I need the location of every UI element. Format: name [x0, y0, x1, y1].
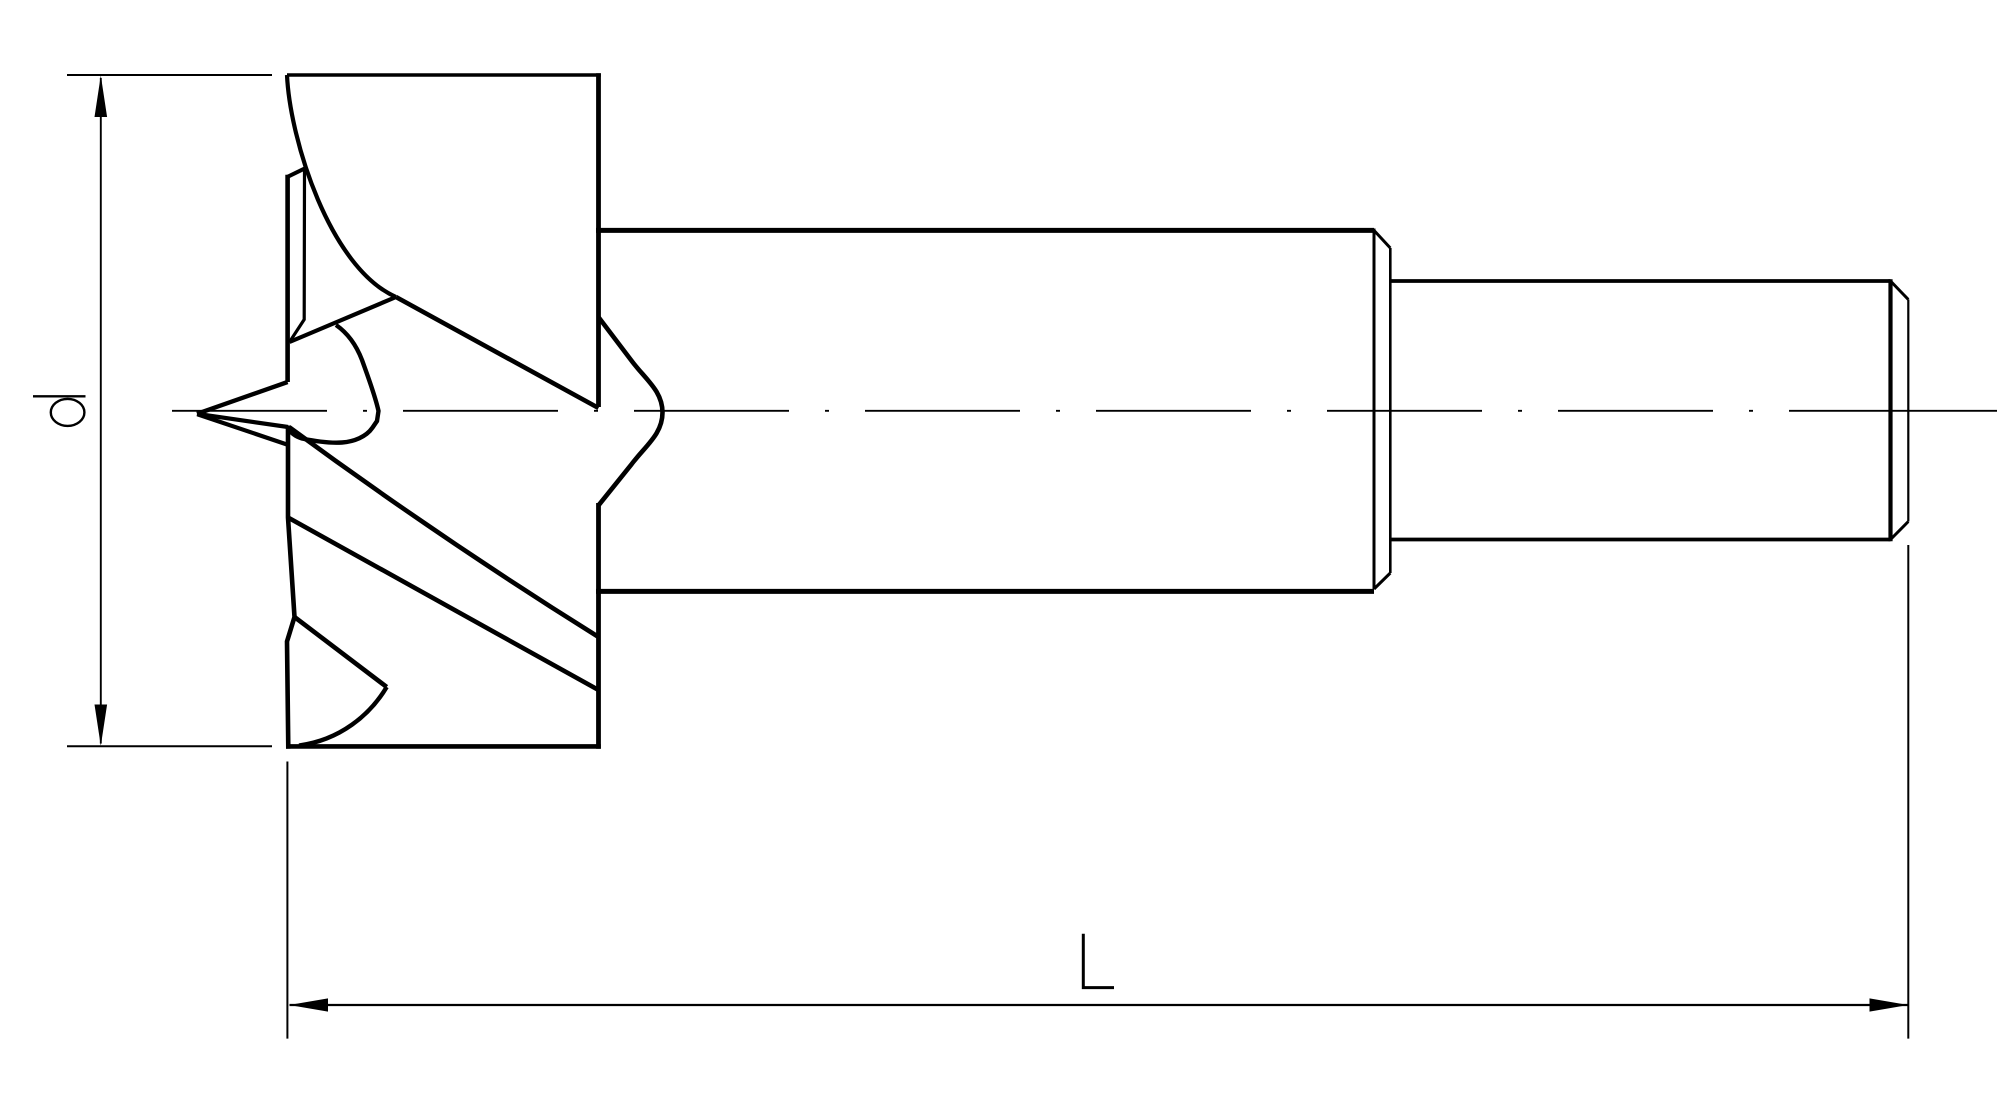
centerline (dash-dot axis) [172, 410, 1756, 412]
center spike lower edge 2 [197, 414, 288, 445]
center spike top edge [197, 382, 288, 414]
flute spiral diagonal A [289, 427, 599, 637]
head bottom edge [286, 744, 601, 749]
head left edge lower with step [287, 426, 295, 749]
body right end vertical [1373, 229, 1376, 590]
center spike lower edge 1 [197, 414, 288, 427]
dimension L: dimension line [290, 1004, 1908, 1006]
flute spiral diagonal B [288, 518, 599, 691]
body end chamfer bottom [1374, 573, 1390, 589]
dimension d: label d (rotated) stem [33, 395, 86, 397]
bottom tooth relief arc [299, 687, 387, 746]
spur inner edge [290, 169, 305, 342]
chip tongue outline [288, 325, 378, 443]
far cutting lip bulge [598, 317, 662, 505]
dimension L: left extension line [286, 762, 288, 1039]
head top edge [287, 73, 601, 76]
centerline final dash [1789, 410, 1997, 412]
body top edge [596, 228, 1374, 233]
shank end vertical [1888, 279, 1892, 541]
dimension L: right extension line [1907, 545, 1909, 1039]
dimension d: arrow up [95, 76, 108, 118]
dimension d: dimension line [100, 78, 102, 744]
branch line J1 to spur base [290, 297, 397, 342]
shank bottom edge [1390, 538, 1890, 542]
dimension d: top extension tick [67, 74, 272, 76]
spur front edge (left vertical) [285, 175, 290, 382]
body bottom edge [596, 589, 1374, 594]
spur top tip [288, 169, 305, 177]
dimension d: label d (rotated) bowl [51, 399, 85, 426]
dimension d: bottom extension tick [67, 745, 272, 747]
shank end face edge [1907, 300, 1909, 522]
shank top edge [1390, 279, 1890, 283]
head right edge upper [596, 73, 601, 407]
head right edge lower [596, 503, 601, 749]
dimension L: arrow right [1870, 998, 1909, 1011]
shank chamfer top [1891, 281, 1909, 300]
dimension L: arrow left [289, 998, 328, 1011]
dimension L: label L [1083, 934, 1114, 988]
flute silhouette curve from top-left corner [287, 75, 396, 297]
shank chamfer bottom [1891, 522, 1909, 540]
body end face edge [1389, 248, 1392, 573]
dimension d: arrow down [95, 705, 108, 746]
bottom tooth hypotenuse [295, 617, 387, 687]
flute diagonal J1 to right edge [396, 297, 599, 408]
body end chamfer top [1374, 230, 1390, 248]
